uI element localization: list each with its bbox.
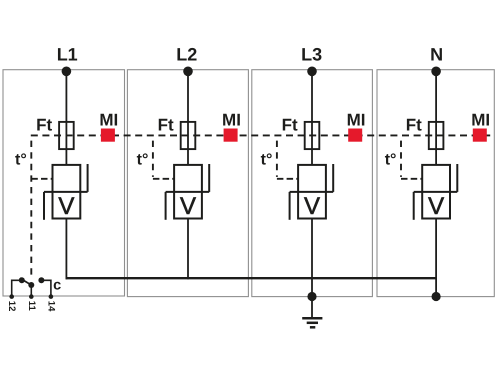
dashed thermal sense branch to varistor (L1 path): [31, 178, 52, 180]
changeover contact wiring left (terminal 12): [12, 280, 22, 296]
dashed thermal sense line vertical (L3 path): [276, 135, 278, 177]
terminal dot L1: [62, 67, 72, 77]
bottom common bus wire: [66, 277, 437, 279]
dashed thermal sense branch to varistor (L3 path): [277, 178, 298, 180]
module box L2 outline: [127, 70, 248, 297]
svg-text:Ft: Ft: [282, 115, 298, 134]
svg-text:V: V: [180, 193, 196, 220]
junction dot N/PE: [432, 292, 441, 301]
svg-text:11: 11: [26, 301, 37, 312]
ground symbol bars: [302, 317, 322, 320]
contact dot left: [19, 277, 25, 283]
changeover contact wiring right (terminal 14): [41, 280, 51, 296]
terminal dot 11: [29, 294, 34, 299]
wire L1 terminal to varistor: [65, 71, 67, 165]
plug-in bracket left (L3 path): [289, 192, 291, 220]
svg-text:L1: L1: [57, 44, 78, 64]
module box L3 outline: [252, 70, 373, 297]
terminal dot 14: [49, 294, 54, 299]
terminal dot 12: [9, 294, 14, 299]
svg-text:MI: MI: [471, 110, 490, 129]
svg-text:12: 12: [6, 301, 17, 312]
plug-in bracket right (L2 path): [208, 164, 210, 192]
plug-in bracket right (N path): [456, 164, 458, 192]
dashed thermal sense branch to varistor (N path): [401, 178, 422, 180]
svg-text:c: c: [53, 277, 61, 293]
svg-text:14: 14: [45, 301, 56, 312]
svg-text:V: V: [428, 193, 444, 220]
varistor mid line (L1 path): [44, 191, 88, 193]
terminal dot L2: [183, 67, 193, 77]
thermal disconnector Ft (N path): [429, 122, 444, 149]
plug-in bracket left (N path): [413, 192, 415, 220]
svg-text:V: V: [304, 193, 320, 220]
dashed thermal sense line vertical (L1 path): [30, 135, 32, 276]
varistor module body (L1 path): [53, 165, 81, 219]
varistor mid line (L3 path): [290, 191, 334, 193]
svg-text:L2: L2: [176, 44, 197, 64]
plug-in bracket left (L1 path): [43, 192, 45, 220]
svg-text:L3: L3: [301, 44, 322, 64]
module box L1 outline: [3, 70, 125, 296]
contact dot right: [38, 277, 44, 283]
dashed MI monitoring line (horizontal): [31, 134, 494, 136]
terminal dot L3: [307, 67, 317, 77]
ground stem wire: [311, 297, 313, 319]
wire N terminal to varistor: [435, 71, 437, 165]
contact lever: [20, 278, 32, 285]
svg-text:MI: MI: [222, 110, 241, 129]
varistor mid line (N path): [414, 191, 458, 193]
wire varistor bottom down (L1 path): [65, 219, 67, 280]
plug-in bracket right (L1 path): [87, 164, 89, 192]
wire L2 terminal to varistor: [187, 71, 189, 165]
svg-text:t°: t°: [15, 151, 27, 168]
dashed thermal sense branch to varistor (L2 path): [153, 178, 174, 180]
wire varistor bottom down (L3 path): [311, 219, 313, 297]
thermal disconnector Ft (L2 path): [181, 122, 196, 149]
svg-text:V: V: [58, 193, 74, 220]
svg-text:Ft: Ft: [158, 115, 174, 134]
junction dot L3/PE: [307, 292, 316, 301]
dashed thermal sense line vertical (L2 path): [152, 135, 154, 177]
svg-text:t°: t°: [385, 151, 397, 168]
MI indicator red square (N path): [473, 129, 487, 142]
svg-text:t°: t°: [137, 151, 149, 168]
svg-text:N: N: [430, 44, 443, 64]
svg-text:t°: t°: [261, 151, 273, 168]
wire varistor bottom down (L2 path): [187, 219, 189, 280]
MI indicator red square (L2 path): [224, 129, 238, 142]
plug-in bracket right (L3 path): [332, 164, 334, 192]
wire L3 terminal to varistor: [311, 71, 313, 165]
changeover contact wiring middle (terminal 11): [30, 285, 32, 297]
contact pivot dot: [28, 282, 34, 288]
varistor mid line (L2 path): [166, 191, 210, 193]
terminal dot N: [431, 67, 441, 77]
svg-text:Ft: Ft: [406, 115, 422, 134]
varistor module body (L3 path): [298, 165, 326, 219]
MI indicator red square (L3 path): [348, 129, 362, 142]
MI indicator red square (L1 path): [101, 129, 115, 142]
dashed thermal sense line vertical (N path): [400, 135, 402, 177]
module box N outline: [377, 70, 494, 297]
wire varistor bottom down (N path): [435, 219, 437, 297]
thermal disconnector Ft (L3 path): [305, 122, 320, 149]
varistor module body (N path): [422, 165, 450, 219]
varistor module body (L2 path): [174, 165, 202, 219]
svg-text:Ft: Ft: [36, 115, 52, 134]
svg-text:MI: MI: [99, 110, 118, 129]
thermal disconnector Ft (L1 path): [59, 122, 74, 149]
svg-text:MI: MI: [347, 110, 366, 129]
plug-in bracket left (L2 path): [165, 192, 167, 220]
